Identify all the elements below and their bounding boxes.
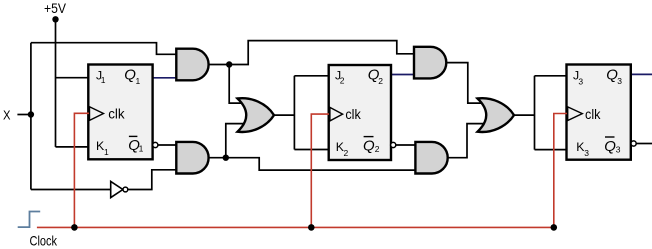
svg-text:3: 3 [617,76,622,86]
wire X to inverter input [31,189,111,191]
svg-text:3: 3 [584,148,589,158]
svg-text:Q: Q [363,138,375,155]
svg-text:1: 1 [101,75,106,85]
wire X vertical [30,43,32,190]
wire Q2bar to AND4 top input [396,144,418,146]
wire +5V to K1 [56,146,90,148]
junction dot clock U3 [551,224,558,231]
wire clock line (red) [37,226,554,228]
wire inverter to AND2 bottom input [128,170,178,190]
clock step symbol [18,212,41,228]
svg-text:Q: Q [604,138,616,155]
svg-text:3: 3 [578,76,583,86]
wire X stub [17,114,31,116]
svg-text:2: 2 [340,75,345,85]
flip-flop U2 [329,65,396,160]
wire clock to U2 clk (red) [311,114,329,227]
wire AND4 output to OR2 bottom input [445,124,490,158]
wire AND1 output to junction [206,64,229,66]
AND gate A3 [414,47,446,79]
node X junction dot [28,111,34,117]
junction dot clock U2 [308,224,315,231]
wire AND2 output to junction [206,157,226,159]
junction dot AND1 output [226,61,232,67]
svg-text:clk: clk [345,106,361,122]
svg-text:3: 3 [616,144,621,154]
wire Q1 to AND1 (blue) [153,77,178,79]
svg-text:2: 2 [344,148,349,158]
wire +5V vertical [55,19,57,147]
OR gate O2 [478,98,515,132]
junction dot AND2 output [223,155,229,161]
svg-text:1: 1 [139,143,144,153]
svg-text:1: 1 [136,76,141,86]
wire AND2 junction to AND4 bottom input (long bottom wire) [226,158,417,170]
wire clock to U1 clk (red) [74,113,89,227]
svg-text:Clock: Clock [30,233,58,249]
svg-text:1: 1 [104,147,109,157]
svg-text:2: 2 [375,144,380,154]
AND gate A4 [415,142,447,174]
wire X to AND1 top input [31,43,178,55]
OR gate O1 [238,98,275,132]
wire Q2 to AND3 (blue) [391,74,415,76]
svg-text:2: 2 [378,76,383,86]
wire AND2 junction to OR1 bottom input [226,124,250,158]
wire AND1 junction to OR1 top input [229,65,250,104]
wire Q1bar to AND2 top input [157,144,178,146]
svg-text:clk: clk [108,105,125,121]
wire Q3 output (blue) [631,73,652,75]
power +5V junction dot [52,16,58,22]
wire OR2 output to J3/K3 branch [513,76,567,150]
svg-text:clk: clk [585,106,601,122]
wire OR1 output to J2/K2 branch [273,76,329,150]
inverter U5 [111,181,128,197]
svg-text:Q: Q [124,67,136,84]
AND gate A1 [176,49,208,81]
svg-text:X: X [3,107,11,122]
wire AND3 output to OR2 top input [444,63,490,104]
AND gate A2 [176,142,208,174]
wire Q3bar output [637,143,652,145]
svg-text:+5V: +5V [44,1,66,16]
flip-flop U1 [88,65,158,160]
flip-flop U3 [567,65,637,160]
wire AND1 junction to AND3 top (long top wire) [229,41,415,65]
wire +5V to J1 [56,77,90,79]
junction dot clock U1 [71,224,78,231]
wire clock to U3 clk (red) [554,114,567,228]
